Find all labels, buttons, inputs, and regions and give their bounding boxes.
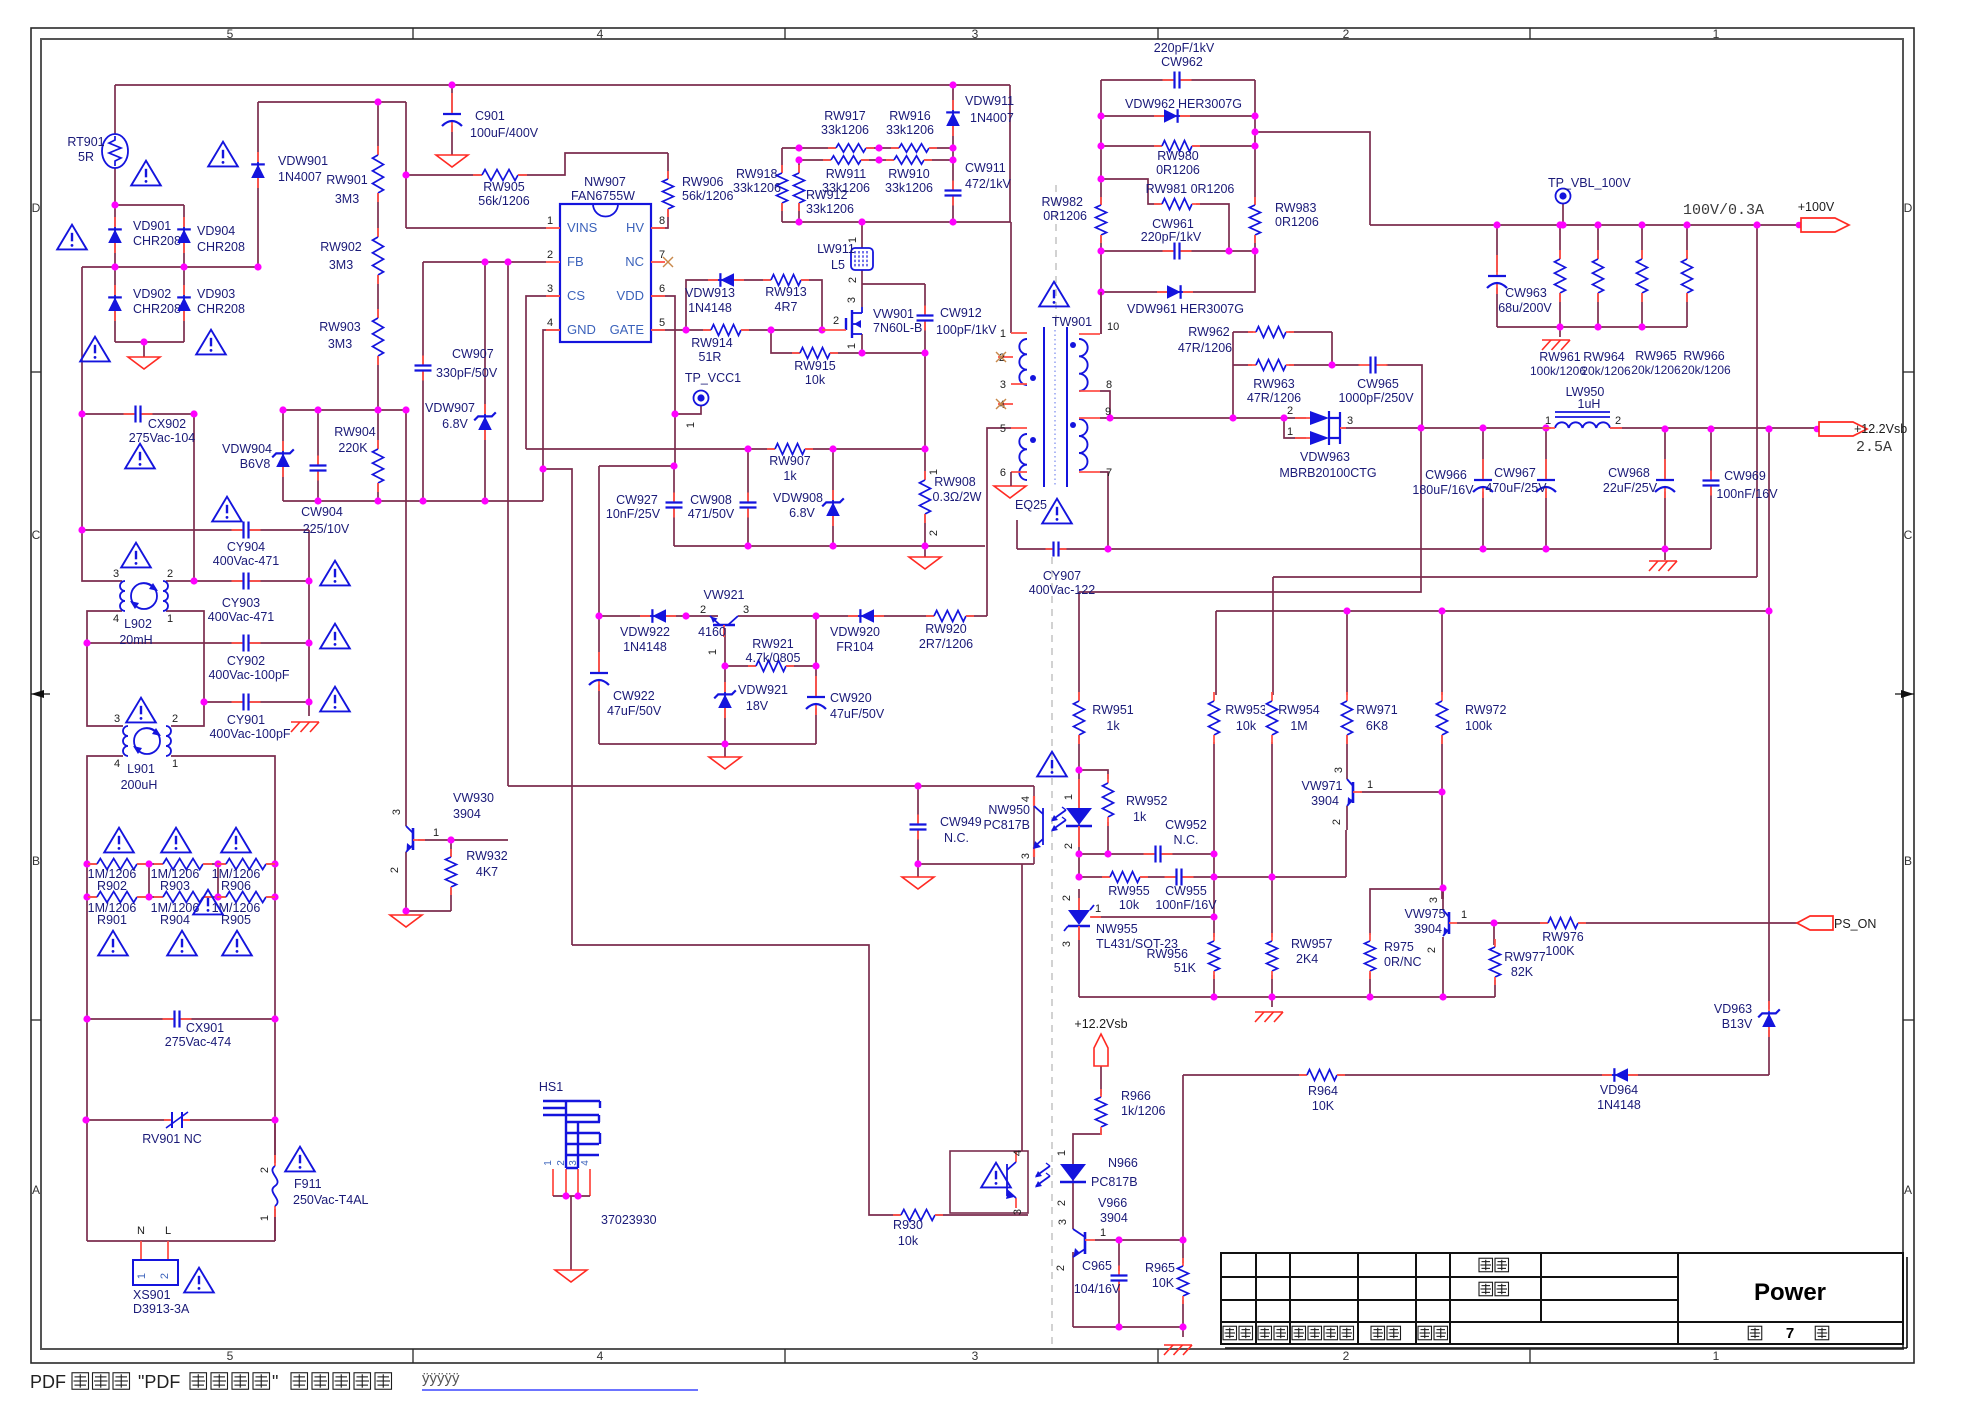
wire VDW963 pin1 loop: [1284, 418, 1306, 438]
transistor VW930 3904: [412, 828, 415, 850]
connector +12.2Vsb: [1814, 426, 1821, 433]
optocoupler N966 PC817B: [950, 1151, 1028, 1213]
diode VD902 CHR208: [114, 285, 116, 295]
svg-text:3M3: 3M3: [335, 192, 359, 206]
optocoupler NW950 PC817B: [1033, 786, 1035, 864]
node CW912 source: [921, 349, 928, 356]
resistor RW912 33k1206: [792, 173, 806, 203]
svg-text:TP_VBL_100V: TP_VBL_100V: [1548, 176, 1631, 190]
svg-text:CW965: CW965: [1357, 377, 1399, 391]
wire TL431 pin1 link: [1091, 916, 1214, 918]
svg-text:100V/0.3A: 100V/0.3A: [1683, 202, 1764, 219]
wire RW953 top col: [1215, 611, 1217, 695]
wire CX902 rail: [82, 413, 194, 415]
svg-text:1: 1: [1713, 1349, 1720, 1363]
wire VW971 emitter drop: [1345, 830, 1347, 877]
wire L901 pin2 lead: [171, 702, 204, 726]
svg-text:CW968: CW968: [1608, 466, 1650, 480]
wire VDD cap chain: [598, 466, 600, 744]
dual diode VDW963 MBRB20100CTG: [1310, 411, 1329, 425]
warning w21: [184, 1268, 214, 1293]
resistor RW976 100K: [1548, 916, 1578, 930]
wire gate diode loop: [686, 280, 822, 330]
wire rail611: [1216, 610, 1769, 612]
node gate RW914: [682, 326, 689, 333]
wire Rnet row1: [87, 863, 275, 865]
wire R975 bottom: [1369, 973, 1371, 997]
svg-text:CX902: CX902: [148, 417, 186, 431]
node Rnet1 d: [271, 860, 278, 867]
node rail449 RW908: [921, 445, 928, 452]
svg-text:1: 1: [707, 649, 719, 655]
no-connect X pin4: [996, 399, 1006, 409]
resistor RW918 33k1206: [775, 173, 789, 203]
svg-text:2: 2: [1063, 843, 1075, 849]
svg-text:5: 5: [227, 27, 234, 41]
svg-text:V966: V966: [1098, 1196, 1127, 1210]
capacitor CW904 225/10V: [310, 464, 327, 472]
warning w15: [221, 828, 251, 853]
wire CW912 column: [924, 284, 926, 546]
capacitor CW908 471/50V: [740, 501, 757, 509]
resistor RW952 1k: [1101, 783, 1115, 817]
wire PS_ON line: [1457, 922, 1797, 924]
svg-text:4: 4: [597, 27, 604, 41]
title block label ni-zhi: [1479, 1258, 1493, 1272]
svg-text:4: 4: [547, 317, 553, 329]
svg-text:VD904: VD904: [197, 224, 235, 238]
sheet number 7: [1748, 1326, 1762, 1340]
wire 100V takeoff: [1255, 132, 1370, 225]
node rail877 a: [1075, 873, 1082, 880]
wire C965 col: [1118, 1240, 1120, 1271]
svg-text:A: A: [32, 1183, 40, 1197]
capacitor CW920 47uF/50V: [807, 696, 825, 709]
svg-text:100k: 100k: [1465, 719, 1493, 733]
wire LW911 top: [861, 222, 863, 248]
svg-text:RW910: RW910: [888, 167, 930, 181]
wire RW962 row b: [1289, 331, 1332, 333]
svg-text:N966: N966: [1108, 1156, 1138, 1170]
wire R975 top: [1370, 889, 1443, 935]
svg-text:18V: 18V: [746, 699, 769, 713]
node rail449 VDW908: [829, 445, 836, 452]
svg-text:GND: GND: [567, 322, 596, 337]
ground bleeder: [1542, 339, 1570, 341]
svg-text:R902: R902: [97, 879, 127, 893]
svg-text:82K: 82K: [1511, 965, 1534, 979]
capacitor CW969 100nF/16V: [1703, 479, 1720, 487]
diode VDW962 HER3007G: [1154, 115, 1164, 117]
wire GND to opto return: [543, 469, 572, 945]
node rail611 b: [1438, 607, 1445, 614]
svg-text:2: 2: [1343, 1349, 1350, 1363]
node rail410 CW904: [314, 406, 321, 413]
wire CY907 up: [1016, 520, 1018, 549]
wire XS901 stub N: [140, 1241, 142, 1260]
node CX901 L: [83, 1015, 90, 1022]
node pin9 a: [1106, 414, 1113, 421]
node rail501 CW907: [419, 497, 426, 504]
inductor LW950 1uH: [1555, 411, 1610, 413]
svg-text:1: 1: [847, 237, 859, 243]
svg-text:220pF/1kV: 220pF/1kV: [1141, 230, 1202, 244]
svg-text:1: 1: [1461, 909, 1467, 921]
svg-text:100K: 100K: [1545, 944, 1575, 958]
svg-text:R930: R930: [893, 1218, 923, 1232]
svg-text:R901: R901: [97, 913, 127, 927]
ground VCC: [709, 757, 741, 769]
warning w11: [320, 687, 350, 712]
svg-text:2: 2: [556, 1160, 567, 1166]
wire CY right bus: [308, 530, 310, 702]
wire sec col right: [1254, 80, 1256, 251]
wire VDW904 branch: [282, 410, 284, 501]
resistor RW916 33k1206: [899, 142, 929, 153]
wire CY gnd stub: [308, 702, 310, 716]
svg-text:1000pF/250V: 1000pF/250V: [1338, 391, 1414, 405]
svg-text:68u/200V: 68u/200V: [1498, 301, 1552, 315]
svg-text:B6V8: B6V8: [240, 457, 271, 471]
wire VDW921 leg: [724, 666, 726, 744]
wire CW907 branch: [422, 262, 424, 501]
wire fb2 gnd stub: [1182, 1327, 1184, 1337]
svg-text:XS901: XS901: [133, 1288, 171, 1302]
svg-text:CW955: CW955: [1165, 884, 1207, 898]
warning w20: [285, 1147, 315, 1172]
warning w7: [212, 497, 242, 522]
svg-text:1N4007: 1N4007: [278, 170, 322, 184]
svg-text:VDW920: VDW920: [830, 625, 880, 639]
capacitor CY901 400Vac-100pF: [242, 694, 250, 711]
svg-text:VW930: VW930: [453, 791, 494, 805]
svg-text:5R: 5R: [78, 150, 94, 164]
capacitor CW907 330pF/50V: [415, 364, 432, 372]
node source RW915: [858, 349, 865, 356]
capacitor CW912 100pF/1kV: [917, 314, 934, 322]
wire RW905 feed: [405, 102, 407, 228]
wire RW977 bottom: [1494, 980, 1496, 997]
wire pin6 gnd stub: [1010, 472, 1012, 486]
wire XS901 stub L: [167, 1241, 169, 1260]
svg-text:1: 1: [1287, 426, 1293, 438]
svg-text:GATE: GATE: [610, 322, 645, 337]
node rail877 b: [1210, 873, 1217, 880]
svg-text:3: 3: [1012, 1209, 1024, 1215]
svg-text:8: 8: [659, 215, 665, 227]
svg-text:3: 3: [113, 568, 119, 580]
svg-text:1N4148: 1N4148: [688, 301, 732, 315]
capacitor CW967 470uF/25V: [1537, 479, 1555, 492]
svg-text:CW907: CW907: [452, 347, 494, 361]
wire fb gnd stub: [1271, 997, 1273, 1007]
resistor R930 10k: [901, 1208, 935, 1222]
resistor RW962 47R/1206: [1256, 325, 1286, 339]
wire V966 pin1 rail: [1095, 1239, 1183, 1241]
svg-text:47R/1206: 47R/1206: [1247, 391, 1301, 405]
wire MOSFET source: [861, 334, 863, 353]
svg-text:R903: R903: [160, 879, 190, 893]
wire VDW911 column: [952, 85, 954, 222]
zener VD963 B13V: [1768, 1001, 1770, 1011]
svg-text:R965: R965: [1145, 1261, 1175, 1275]
wire fb gnd rail997: [1079, 996, 1495, 998]
node fb2 gnd b: [1179, 1323, 1186, 1330]
wire gnd stub 546: [924, 546, 926, 557]
warning w8: [121, 543, 151, 568]
zener VDW907 6.8V: [484, 404, 486, 414]
warning w3: [57, 225, 87, 250]
wire L901 pin1 lead: [171, 756, 275, 1241]
transistor VW975 3904: [1448, 912, 1451, 934]
wire rail449: [526, 448, 925, 450]
svg-text:VD964: VD964: [1600, 1083, 1638, 1097]
node rail854 c: [1210, 850, 1217, 857]
node CY903 pin2: [190, 577, 197, 584]
power flag +12.2Vsb: [1094, 1034, 1108, 1066]
svg-text:RW903: RW903: [319, 320, 361, 334]
svg-text:VDW963: VDW963: [1300, 450, 1350, 464]
warning TW901: [1039, 282, 1069, 307]
svg-text:VDW911: VDW911: [965, 94, 1014, 108]
transformer primary winding 1-3: [1019, 339, 1027, 385]
resistor RW951 1k: [1072, 701, 1086, 735]
transformer pin stubs: [1011, 332, 1027, 334]
svg-text:+12.2Vsb: +12.2Vsb: [1074, 1017, 1127, 1031]
resistor RW914 51R: [711, 323, 741, 337]
svg-text:3: 3: [391, 809, 403, 815]
svg-text:5: 5: [1000, 423, 1006, 435]
node Rnet1 c: [214, 860, 221, 867]
svg-text:3: 3: [972, 27, 979, 41]
node 12V cw968: [1661, 425, 1668, 432]
wire L902 pin4 lead: [87, 611, 122, 643]
wire snubber ladder left: [781, 148, 783, 222]
svg-text:A: A: [1904, 1183, 1912, 1197]
wire RW964 col: [1597, 225, 1599, 327]
svg-text:56k/1206: 56k/1206: [478, 194, 529, 208]
svg-text:51R: 51R: [699, 350, 722, 364]
border centre arrows: [31, 690, 44, 698]
title block label shen-he: [1479, 1282, 1493, 1296]
wire VW930 emitter: [405, 852, 407, 911]
warning NW950: [1037, 752, 1067, 777]
svg-text:2.5A: 2.5A: [1856, 439, 1892, 456]
svg-text:CY904: CY904: [227, 540, 265, 554]
svg-text:RW957: RW957: [1291, 937, 1333, 951]
resistor RW971 6K8: [1340, 701, 1354, 735]
zener VDW908 6.8V: [832, 490, 834, 500]
wire L901 pin3 lead: [87, 643, 123, 726]
svg-text:VDW913: VDW913: [685, 286, 735, 300]
wire 12Vsb N966 arrow stub: [1100, 1066, 1102, 1095]
node RW963 joint: [1328, 361, 1335, 368]
svg-text:CW963: CW963: [1505, 286, 1547, 300]
wire VDW907 branch: [484, 262, 486, 501]
warning w4: [80, 337, 110, 362]
warning w10: [320, 624, 350, 649]
svg-text:4: 4: [1020, 796, 1032, 802]
wire sec gnd stub: [1664, 549, 1666, 560]
wire VDW908 branch: [832, 449, 834, 546]
svg-text:CS: CS: [567, 288, 585, 303]
node gnd744: [721, 740, 728, 747]
node CY901 L: [200, 698, 207, 705]
svg-text:VDW907: VDW907: [425, 401, 475, 415]
wire LED chain: [1078, 770, 1080, 877]
node rail997 b: [1268, 993, 1275, 1000]
svg-text:4: 4: [113, 613, 119, 625]
svg-text:5: 5: [227, 1349, 234, 1363]
svg-text:3M3: 3M3: [328, 337, 352, 351]
connector PS_ON: [1797, 916, 1833, 930]
capacitor C901: [443, 113, 461, 126]
testpoint TP_VBL_100V: [1556, 189, 1571, 204]
svg-text:0R1206: 0R1206: [1275, 215, 1319, 229]
node RW921 R: [812, 662, 819, 669]
svg-text:PC817B: PC817B: [1091, 1175, 1138, 1189]
wire V966 emitter: [1072, 1252, 1074, 1327]
node sec col d: [1097, 247, 1104, 254]
node CY902 L: [83, 639, 90, 646]
wire boost divider rail: [258, 101, 406, 103]
node rail501 RW904: [374, 497, 381, 504]
connector +100V: [1796, 222, 1803, 229]
svg-text:+12.2Vsb: +12.2Vsb: [1854, 422, 1907, 436]
wire HS1 pin stubs: [552, 1169, 554, 1196]
wire RW957 bottom: [1271, 975, 1273, 997]
svg-text:1: 1: [846, 343, 858, 349]
resistor R904 1M/1206: [163, 890, 203, 904]
svg-text:1: 1: [1713, 27, 1720, 41]
svg-text:ÿÿÿÿÿ: ÿÿÿÿÿ: [422, 1370, 460, 1387]
wire R965 col bottom: [1182, 1300, 1184, 1327]
svg-text:20k/1206: 20k/1206: [1631, 363, 1681, 377]
svg-text:CW912: CW912: [940, 306, 982, 320]
node sec colR a: [1251, 112, 1258, 119]
warning EQ25: [1042, 499, 1072, 524]
svg-text:RW966: RW966: [1683, 349, 1725, 363]
svg-text:275Vac-104: 275Vac-104: [129, 431, 196, 445]
svg-text:CW949: CW949: [940, 815, 982, 829]
warning w9: [320, 561, 350, 586]
svg-text:1: 1: [1100, 1227, 1106, 1239]
wire rail854: [1079, 853, 1214, 855]
footer shi-yong-ban-chuang-jian: [291, 1373, 308, 1390]
wire VCC charge line: [599, 615, 718, 617]
thermistor RT901: [102, 134, 128, 168]
svg-text:VD903: VD903: [197, 287, 235, 301]
svg-text:VINS: VINS: [567, 220, 598, 235]
resistor RW980 0R1206: [1162, 139, 1192, 153]
svg-text:6.8V: 6.8V: [789, 506, 815, 520]
wire VW930 gnd stub: [405, 911, 407, 915]
svg-text:TW901: TW901: [1052, 315, 1092, 329]
svg-text:LW911: LW911: [817, 242, 855, 256]
svg-text:1: 1: [1095, 903, 1101, 915]
svg-text:1: 1: [543, 1160, 554, 1166]
svg-text:220K: 220K: [338, 441, 368, 455]
node pin9 c: [1280, 414, 1287, 421]
svg-text:CHR208: CHR208: [197, 240, 245, 254]
node rail549 a: [1479, 545, 1486, 552]
wire RW954 lower column: [1271, 742, 1273, 877]
svg-text:N.C.: N.C.: [1174, 833, 1199, 847]
node 100V startup: [1753, 221, 1760, 228]
svg-text:NW907: NW907: [584, 175, 626, 189]
svg-text:9: 9: [1105, 406, 1111, 418]
svg-text:1: 1: [1545, 415, 1551, 427]
svg-text:RW904: RW904: [334, 425, 376, 439]
svg-text:CY902: CY902: [227, 654, 265, 668]
wire RW952 loop: [1079, 770, 1108, 779]
wire VW971 e: [1346, 806, 1348, 830]
wire CW966 col: [1482, 428, 1484, 549]
svg-text:HER3007G: HER3007G: [1178, 97, 1242, 111]
wire CW965 out: [1386, 365, 1422, 428]
svg-text:CW962: CW962: [1161, 55, 1203, 69]
wire R966 jog: [1073, 1129, 1101, 1140]
node opto pin4: [914, 782, 921, 789]
node v966 rail a: [1115, 1236, 1122, 1243]
svg-text:2: 2: [389, 867, 401, 873]
wire CW904 rail410: [283, 409, 406, 411]
warning w6: [196, 330, 226, 355]
svg-text:100k/1206: 100k/1206: [1530, 364, 1586, 378]
node Rnet2 d: [271, 893, 278, 900]
resistor RW972 100k: [1435, 701, 1449, 735]
wire RW951 top riser: [1078, 592, 1080, 770]
svg-text:"PDF: "PDF: [138, 1372, 180, 1392]
node sec col e: [1097, 288, 1104, 295]
svg-text:CHR208: CHR208: [133, 302, 181, 316]
svg-text:2: 2: [1061, 895, 1073, 901]
diode VD904 CHR208: [183, 217, 185, 227]
svg-text:3M3: 3M3: [329, 258, 353, 272]
ground RW908: [909, 557, 941, 569]
svg-text:400Vac-471: 400Vac-471: [208, 610, 275, 624]
resistor RW906 56k/1206: [661, 179, 675, 209]
node rail854 b: [1104, 850, 1111, 857]
node gate R: [818, 326, 825, 333]
wire pin10 feed: [1100, 292, 1102, 334]
wire bleeder gnd stub: [1559, 327, 1561, 337]
wire RW962 row: [1233, 331, 1253, 333]
wire VW930 gnd rail: [406, 910, 451, 912]
capacitor CW966 180uF/16V: [1474, 479, 1492, 492]
node 100V d: [1683, 221, 1690, 228]
svg-text:VD901: VD901: [133, 219, 171, 233]
svg-text:CW922: CW922: [613, 689, 655, 703]
transistor VW971 3904: [1352, 782, 1355, 803]
svg-text:RW912: RW912: [806, 188, 848, 202]
isolation barrier dashed line: [1051, 557, 1053, 1345]
svg-text:VD902: VD902: [133, 287, 171, 301]
svg-text:1M: 1M: [1290, 719, 1307, 733]
wire C965 bottom: [1118, 1284, 1120, 1327]
wire L902 pin1 lead: [166, 611, 204, 702]
node Rnet1 a: [83, 860, 90, 867]
svg-text:0R1206: 0R1206: [1043, 209, 1087, 223]
wire C901 gnd stub: [451, 122, 453, 155]
svg-text:CW967: CW967: [1494, 466, 1536, 480]
svg-text:3: 3: [1333, 767, 1345, 773]
capacitor CW961 220pF/1kV: [1173, 243, 1181, 260]
svg-text:R905: R905: [221, 913, 251, 927]
svg-text:3: 3: [114, 713, 120, 725]
wire opto4 drop to N966: [1021, 864, 1023, 1151]
svg-text:10k: 10k: [1236, 719, 1257, 733]
